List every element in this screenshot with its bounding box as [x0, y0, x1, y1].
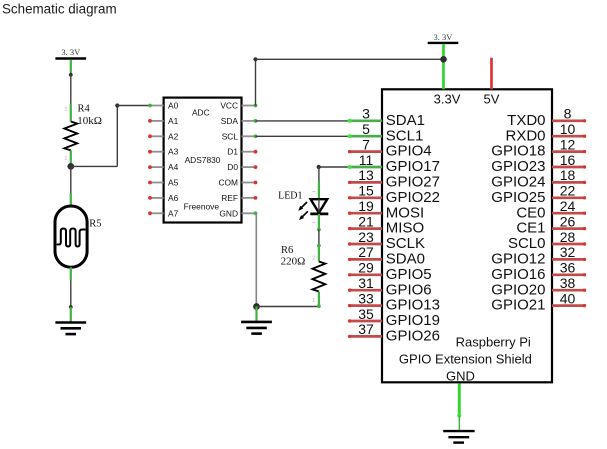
- RPi pin label SCL1: [386, 127, 424, 144]
- RPi pin 24 (CE0) stub: [552, 212, 586, 215]
- RPi pin 31 (GPIO6) stub: [348, 289, 382, 292]
- label GND: [446, 369, 475, 384]
- ADC pin label A3: [168, 147, 179, 157]
- svg-text:A1: A1: [168, 116, 179, 126]
- RPi pin label GPIO5: [386, 266, 432, 283]
- RPi pin label SCLK: [386, 235, 425, 252]
- RPi pin 8 (TXD0) stub: [552, 119, 586, 122]
- RPi pin label GPIO26: [386, 328, 440, 345]
- RPi pin label CE0: [516, 204, 545, 221]
- RPi pin label GPIO16: [491, 266, 545, 283]
- RPi pin 7 (GPIO4) stub: [348, 150, 382, 153]
- RPi pin label GPIO21: [491, 297, 545, 314]
- ADC pin A7 stub: [148, 211, 164, 215]
- RPi pin number 38: [560, 275, 576, 291]
- RPi pin number 22: [560, 183, 576, 199]
- svg-text:D1: D1: [227, 147, 238, 157]
- RPi pin label GPIO25: [491, 189, 545, 206]
- svg-text:5V: 5V: [484, 91, 500, 106]
- R4 pin1 tiny number: [65, 156, 68, 162]
- RPi pin number 3: [362, 106, 370, 122]
- LED1 cathode terminal: [318, 214, 320, 230]
- corner dot GPIO17 net: [317, 165, 321, 169]
- node above left ground: [69, 305, 73, 309]
- RPi pin label GPIO24: [491, 174, 545, 191]
- resistor R6: [313, 246, 326, 307]
- ADC pin A5 stub: [148, 181, 164, 185]
- LED LED1 symbol: [310, 199, 328, 214]
- power +3.3V symbol (top): [428, 32, 459, 43]
- RPi pin 22 (GPIO25) stub: [552, 196, 586, 199]
- svg-text:7: 7: [362, 136, 370, 152]
- ADC pin VCC stub: [242, 104, 258, 108]
- svg-text:R6: R6: [281, 245, 293, 256]
- svg-text:32: 32: [560, 244, 576, 260]
- svg-text:3. 3V: 3. 3V: [434, 32, 454, 42]
- ADC pin SCL stub: [242, 134, 258, 138]
- corner dot VCC net: [253, 57, 257, 61]
- ADC pin A6 stub: [148, 196, 164, 200]
- RPi pin 38 (GPIO20) stub: [552, 289, 586, 292]
- svg-text:GND: GND: [446, 369, 475, 384]
- LED pin tiny mark top: [312, 191, 315, 193]
- svg-text:A7: A7: [168, 208, 179, 218]
- svg-text:27: 27: [358, 244, 374, 260]
- svg-text:36: 36: [560, 260, 576, 276]
- ADC pin label COM: [218, 178, 238, 188]
- RPi pin number 16: [560, 152, 576, 168]
- svg-text:40: 40: [560, 290, 576, 306]
- RPi pin label SDA0: [386, 251, 425, 268]
- svg-text:12: 12: [560, 136, 576, 152]
- RPi pin number 11: [359, 152, 374, 168]
- ADC pin REF stub: [242, 196, 258, 200]
- ground symbol (middle): [241, 322, 272, 334]
- wire SCL to SCL1: [256, 135, 369, 137]
- svg-text:GND: GND: [219, 208, 238, 218]
- wire power to R4: [70, 75, 72, 105]
- RPi pin label GPIO4: [386, 143, 432, 160]
- svg-text:Raspberry Pi: Raspberry Pi: [456, 334, 531, 349]
- wire VCC rail horizontal: [256, 58, 444, 60]
- photoresistor R5: [55, 206, 87, 267]
- LED light arrow 2: [299, 211, 308, 220]
- RPi pin number 10: [560, 121, 576, 137]
- svg-text:13: 13: [358, 167, 374, 183]
- ADC pin D1 stub: [242, 150, 258, 154]
- label LED1: [278, 191, 302, 202]
- svg-text:1: 1: [65, 156, 68, 162]
- RPi pin label GPIO13: [386, 297, 440, 314]
- svg-text:SCL: SCL: [222, 131, 239, 141]
- svg-text:31: 31: [358, 275, 374, 291]
- RPi pin 32 (GPIO12) stub: [552, 258, 586, 261]
- svg-text:LED1: LED1: [278, 191, 302, 202]
- svg-text:1: 1: [312, 298, 315, 304]
- RPi pin number 12: [560, 136, 576, 152]
- RPi pin 15 (GPIO22) stub: [348, 196, 382, 199]
- wire GPIO17 horizontal: [319, 166, 368, 168]
- ADC subtitle text: [192, 107, 210, 117]
- svg-text:28: 28: [560, 229, 576, 245]
- RPi pin label GPIO22: [386, 189, 440, 206]
- RPi pin number 29: [358, 260, 374, 276]
- LED light arrow 1: [298, 202, 307, 211]
- svg-text:11: 11: [359, 152, 374, 168]
- ADC pin COM stub: [242, 181, 258, 185]
- ground pin segment (shield): [458, 416, 460, 431]
- RPi pin number 26: [560, 213, 576, 229]
- ADC pin label A7: [168, 208, 179, 218]
- svg-text:ADC: ADC: [192, 107, 210, 117]
- RPi pin 40 (GPIO21) stub: [552, 304, 586, 307]
- junction node 3.3V rail: [440, 56, 447, 63]
- node R6 top: [317, 244, 321, 248]
- RPi pin number 13: [358, 167, 374, 183]
- wire R5 to ground: [70, 280, 72, 307]
- svg-text:38: 38: [560, 275, 576, 291]
- junction node mid ground: [253, 303, 260, 310]
- RPi pin 35 (GPIO19) stub: [348, 319, 382, 322]
- node shield GND wire end: [457, 413, 461, 417]
- RPi pin 33 (GPIO13) stub: [348, 304, 382, 307]
- svg-text:3: 3: [362, 106, 370, 122]
- RPi pin number 19: [358, 198, 374, 214]
- wire corner vertical to A0 row: [116, 106, 118, 167]
- svg-text:GPIO Extension Shield: GPIO Extension Shield: [399, 351, 532, 366]
- svg-text:A5: A5: [168, 178, 179, 188]
- svg-text:33: 33: [358, 290, 374, 306]
- svg-text:22: 22: [560, 183, 576, 199]
- node LED cathode: [317, 228, 321, 232]
- ADC pin label A0: [168, 101, 179, 111]
- ADC vendor text: [184, 201, 220, 211]
- wire LED to R6: [318, 230, 320, 247]
- wire shield GND down: [458, 383, 461, 415]
- wire down to LED: [318, 167, 320, 182]
- RPi pin number 37: [358, 321, 374, 337]
- RPi pin label MOSI: [386, 204, 424, 221]
- ground symbol (shield): [443, 431, 474, 443]
- RPi pin label SDA1: [386, 112, 425, 129]
- ADC pin D0 stub: [242, 165, 258, 169]
- RPi pin label GPIO6: [386, 281, 432, 298]
- svg-text:10: 10: [560, 121, 576, 137]
- svg-text:Schematic diagram: Schematic diagram: [2, 2, 117, 17]
- ADC pin A2 stub: [148, 134, 164, 138]
- RPi pin 19 (MOSI) stub: [348, 212, 382, 215]
- label 3.3V: [434, 91, 461, 106]
- svg-text:SDA: SDA: [221, 116, 239, 126]
- wire R6 bottom horizontal: [257, 306, 320, 308]
- LED pin tiny mark bottom: [312, 221, 315, 223]
- RPi pin label RXD0: [505, 127, 545, 144]
- label R6: [281, 245, 293, 256]
- LED1 anode terminal: [318, 181, 320, 199]
- RPi pin number 24: [560, 198, 576, 214]
- value 220Ohm: [281, 256, 306, 268]
- R4 pin2 tiny number: [65, 107, 68, 113]
- ADC pin A3 stub: [148, 150, 164, 154]
- RPi pin 5 (SCL1) stub: [348, 134, 382, 138]
- ADC pin label D1: [227, 147, 238, 157]
- wire GND down: [255, 214, 257, 307]
- svg-text:220Ω: 220Ω: [281, 256, 306, 268]
- R5 top terminal: [70, 193, 72, 206]
- RPi pin label GPIO27: [386, 174, 440, 191]
- RPi pin number 23: [358, 229, 374, 245]
- R6 pin2 tiny number: [312, 256, 315, 262]
- RPi pin number 7: [362, 136, 370, 152]
- svg-text:8: 8: [564, 106, 572, 122]
- RPi pin number 35: [358, 306, 374, 322]
- svg-text:A4: A4: [168, 162, 179, 172]
- op-amp/ADC chip U1 ADS7830 body: [164, 98, 242, 223]
- RPi pin label GPIO20: [491, 281, 545, 298]
- RPi pin number 21: [358, 213, 374, 229]
- svg-text:18: 18: [560, 167, 576, 183]
- ADC pin label A5: [168, 178, 179, 188]
- RPi pin 27 (SDA0) stub: [348, 258, 382, 261]
- ADC pin SDA stub: [242, 119, 258, 123]
- ADC pin label A2: [168, 131, 179, 141]
- ADC part number text: [185, 155, 221, 165]
- svg-text:REF: REF: [221, 193, 238, 203]
- RPi pin 21 (MISO) stub: [348, 227, 382, 230]
- ADC pin label A1: [168, 116, 179, 126]
- ADC pin label REF: [221, 193, 238, 203]
- svg-text:GPIO26: GPIO26: [386, 328, 440, 345]
- svg-text:10kΩ: 10kΩ: [77, 115, 102, 127]
- RPi pin number 8: [564, 106, 572, 122]
- label R5: [89, 218, 101, 229]
- title text: [2, 2, 117, 17]
- RPi pin 11 (GPIO17) stub: [348, 165, 382, 169]
- resistor R4: [64, 104, 77, 166]
- ADC pin label A6: [168, 193, 179, 203]
- wire 3.3V rail to shield: [442, 44, 445, 89]
- ADC pin label D0: [227, 162, 238, 172]
- svg-text:23: 23: [358, 229, 374, 245]
- ADC pin GND stub: [242, 211, 258, 215]
- ADC pin label VCC: [220, 101, 238, 111]
- Raspberry Pi shield body U2: [382, 89, 552, 382]
- svg-text:A3: A3: [168, 147, 179, 157]
- RPi pin number 33: [358, 290, 374, 306]
- value 10kOhm: [77, 115, 102, 127]
- RPi pin number 15: [358, 183, 374, 199]
- svg-text:15: 15: [358, 183, 374, 199]
- R6 pin1 tiny number: [312, 298, 315, 304]
- ADC pin label SDA: [221, 116, 239, 126]
- RPi pin number 36: [560, 260, 576, 276]
- RPi pin 37 (GPIO26) stub: [348, 335, 382, 338]
- RPi pin 29 (GPIO5) stub: [348, 273, 382, 276]
- shield title text 1: [456, 334, 531, 349]
- RPi pin label CE1: [516, 220, 545, 237]
- svg-text:A2: A2: [168, 131, 179, 141]
- wire VCC up: [255, 59, 257, 105]
- RPi pin number 40: [560, 290, 576, 306]
- wire junction to R5: [70, 166, 72, 194]
- RPi pin label GPIO17: [386, 158, 440, 175]
- RPi pin 36 (GPIO16) stub: [552, 273, 586, 276]
- pin 5V stub: [490, 58, 493, 90]
- RPi pin 16 (GPIO23) stub: [552, 165, 586, 168]
- RPi pin 10 (RXD0) stub: [552, 135, 586, 138]
- RPi pin number 27: [358, 244, 374, 260]
- RPi pin label MISO: [386, 220, 424, 237]
- svg-text:3. 3V: 3. 3V: [61, 47, 81, 57]
- wire SDA to SDA1: [256, 120, 369, 122]
- power +3.3V symbol (left): [55, 47, 86, 75]
- ADC pin A1 stub: [148, 119, 164, 123]
- svg-text:3.3V: 3.3V: [434, 91, 461, 106]
- ground pin segment (left): [70, 307, 72, 322]
- node at power pin (left): [69, 73, 73, 77]
- R5 bottom terminal: [70, 267, 72, 280]
- svg-text:19: 19: [358, 198, 374, 214]
- svg-text:R4: R4: [78, 104, 91, 115]
- RPi pin label GPIO23: [491, 158, 545, 175]
- svg-text:GPIO21: GPIO21: [491, 297, 545, 314]
- RPi pin label GPIO12: [491, 251, 545, 268]
- svg-text:D0: D0: [227, 162, 238, 172]
- node R6 bottom corner: [317, 304, 321, 308]
- ADC pin A4 stub: [148, 165, 164, 169]
- RPi pin 23 (SCLK) stub: [348, 242, 382, 245]
- ground symbol (left): [55, 323, 86, 335]
- svg-text:24: 24: [560, 198, 576, 214]
- RPi pin 12 (GPIO18) stub: [552, 150, 586, 153]
- RPi pin label TXD0: [507, 112, 545, 129]
- RPi pin label GPIO18: [491, 143, 545, 160]
- RPi pin 28 (SCL0) stub: [552, 242, 586, 245]
- svg-text:21: 21: [358, 213, 374, 229]
- label 5V: [484, 91, 500, 106]
- ground pin segment (middle): [255, 307, 257, 322]
- svg-text:5: 5: [362, 121, 370, 137]
- RPi pin number 32: [560, 244, 576, 260]
- svg-text:A0: A0: [168, 101, 179, 111]
- RPi pin number 28: [560, 229, 576, 245]
- svg-text:A6: A6: [168, 193, 179, 203]
- RPi pin number 31: [358, 275, 374, 291]
- RPi pin number 5: [362, 121, 370, 137]
- RPi pin 18 (GPIO24) stub: [552, 181, 586, 184]
- ADC pin label A4: [168, 162, 179, 172]
- svg-text:COM: COM: [218, 178, 238, 188]
- svg-text:26: 26: [560, 213, 576, 229]
- RPi pin 13 (GPIO27) stub: [348, 181, 382, 184]
- ADC pin A0 stub: [148, 104, 164, 108]
- svg-text:37: 37: [358, 321, 374, 337]
- svg-text:Freenove: Freenove: [184, 201, 220, 211]
- svg-text:R5: R5: [89, 218, 101, 229]
- svg-text:16: 16: [560, 152, 576, 168]
- ADC pin label SCL: [222, 131, 239, 141]
- RPi pin 26 (CE1) stub: [552, 227, 586, 230]
- RPi pin number 18: [560, 167, 576, 183]
- RPi pin 3 (SDA1) stub: [348, 119, 382, 123]
- svg-text:35: 35: [358, 306, 374, 322]
- svg-text:ADS7830: ADS7830: [185, 155, 221, 165]
- svg-text:29: 29: [358, 260, 374, 276]
- wire corner to A0 pin: [117, 105, 150, 107]
- svg-text:VCC: VCC: [220, 101, 238, 111]
- RPi pin label SCL0: [508, 235, 546, 252]
- shield title text 2: [399, 351, 532, 366]
- RPi pin label GPIO19: [386, 312, 440, 329]
- label R4: [78, 104, 91, 115]
- corner dot: [115, 103, 119, 107]
- wire junction to corner: [71, 165, 118, 167]
- junction node R4/R5/A0: [67, 163, 74, 170]
- svg-text:2: 2: [312, 256, 315, 262]
- svg-text:2: 2: [65, 107, 68, 113]
- ADC pin label GND: [219, 208, 238, 218]
